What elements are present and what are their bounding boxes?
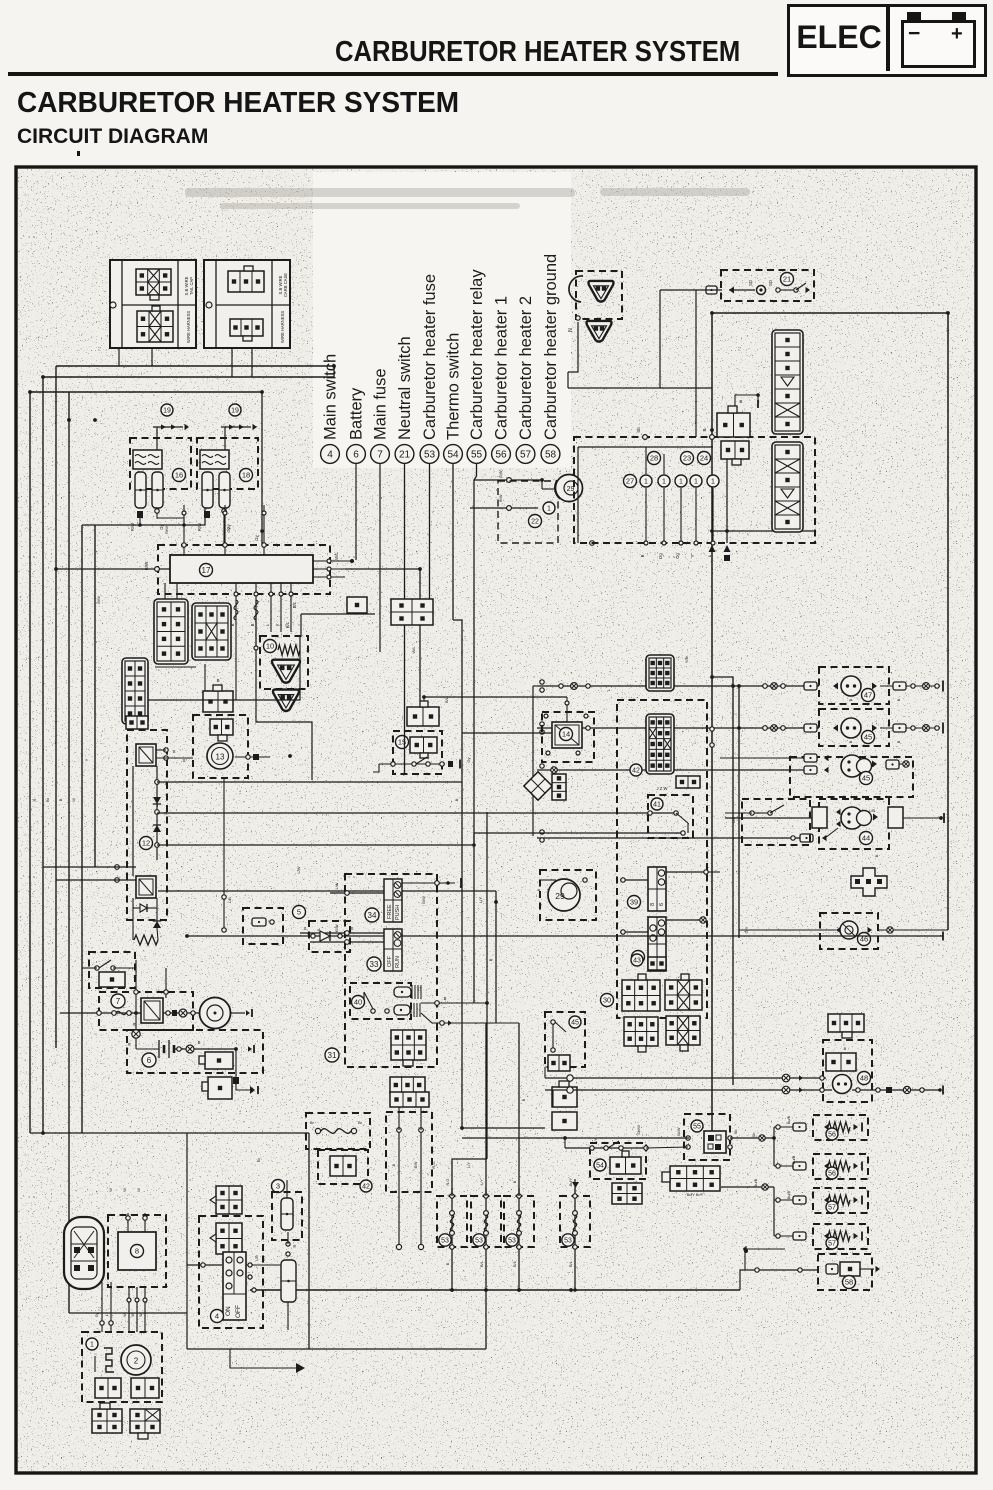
wire row — [725, 817, 815, 819]
pin on v712 — [710, 727, 714, 731]
box B circle — [206, 302, 212, 308]
svg-text:Br: Br — [310, 1120, 315, 1125]
pin — [644, 541, 648, 545]
terminal — [804, 682, 817, 690]
junction dot — [460, 1126, 464, 1130]
grid c5 — [622, 974, 660, 1011]
pin — [559, 726, 563, 730]
pin — [223, 511, 227, 515]
circle 33 — [367, 957, 381, 971]
legend backdrop — [313, 172, 571, 468]
pin — [567, 1087, 573, 1093]
pin — [755, 1268, 759, 1272]
wire — [136, 1048, 159, 1050]
wire — [156, 898, 158, 921]
diode up small — [153, 921, 161, 928]
pin — [450, 1194, 454, 1198]
thermo cells — [610, 1151, 641, 1174]
bus bar dashed box — [158, 545, 330, 594]
wire drop to bullet — [135, 960, 137, 1031]
junction dot — [710, 529, 714, 533]
svg-text:23: 23 — [683, 454, 691, 463]
contact pin — [426, 762, 430, 766]
pin — [540, 838, 544, 842]
wire — [156, 749, 166, 751]
bullet — [551, 767, 557, 773]
junction dot — [540, 478, 544, 482]
pin — [262, 511, 266, 515]
wire bus bottom pin — [235, 583, 237, 632]
ignition inner grid — [410, 737, 437, 758]
junction dot — [450, 1288, 454, 1292]
wire — [541, 480, 543, 489]
svg-text:44: 44 — [862, 834, 870, 843]
wire — [43, 866, 136, 868]
header rule — [8, 72, 778, 76]
svg-text:14: 14 — [562, 730, 570, 739]
circle 1 — [675, 475, 687, 487]
pin — [155, 780, 160, 785]
arrow — [824, 767, 829, 773]
pin on dash — [254, 592, 258, 596]
pin — [327, 559, 331, 563]
lever — [608, 1141, 619, 1148]
circle 55 comp — [691, 1120, 703, 1132]
svg-text:3: 3 — [276, 1182, 280, 1191]
pin — [781, 684, 786, 689]
terminal — [793, 1123, 806, 1131]
junction dot — [234, 1047, 238, 1051]
bar — [861, 1196, 863, 1205]
svg-text:19: 19 — [163, 408, 171, 415]
wire — [568, 322, 578, 372]
junction dot — [710, 428, 714, 432]
svg-text:R/W: R/W — [197, 523, 202, 531]
wire v696 — [695, 290, 697, 437]
wire bend2 — [69, 1312, 187, 1314]
wire — [176, 583, 178, 599]
junction dot — [939, 816, 943, 820]
junction dot — [710, 311, 714, 315]
svg-text:1: 1 — [547, 506, 551, 513]
page running head — [335, 36, 747, 69]
wire — [734, 395, 736, 406]
circle 46 — [858, 933, 871, 946]
wire — [660, 289, 722, 291]
generator 2 — [121, 1345, 151, 1375]
wire — [420, 1107, 422, 1130]
contact pin — [440, 762, 444, 766]
ground connector 3 — [589, 281, 614, 302]
svg-text:B: B — [848, 698, 853, 701]
circle 43 — [631, 954, 643, 966]
svg-text:39: 39 — [630, 898, 638, 907]
pin — [586, 726, 590, 730]
gen grid 3 — [92, 1403, 122, 1433]
junction dot — [185, 934, 189, 938]
heater resistor — [828, 1195, 850, 1205]
wire — [735, 395, 758, 401]
horn 29a — [555, 475, 583, 502]
junction dot — [446, 881, 450, 885]
svg-text:27: 27 — [626, 477, 634, 486]
wire thermo row — [565, 1147, 646, 1149]
svg-text:29: 29 — [555, 891, 565, 901]
svg-text:Main fuse: Main fuse — [372, 368, 390, 440]
circle 28 — [648, 452, 661, 465]
carb heater relay block — [704, 1131, 726, 1153]
circle 57 heater — [826, 1201, 838, 1213]
wire contact row — [379, 763, 445, 765]
wire — [287, 1232, 289, 1244]
svg-text:B: B — [446, 1262, 450, 1265]
fuse capsule 1 — [202, 472, 213, 508]
bus bar 17 — [170, 555, 313, 583]
pin — [222, 509, 226, 513]
pin — [820, 1076, 824, 1080]
heater resistor — [828, 1161, 850, 1171]
svg-text:L/B: L/B — [731, 817, 736, 823]
pin — [371, 1009, 375, 1013]
terminal — [826, 1264, 838, 1274]
circle 17 — [200, 564, 213, 577]
wire long drop W/L — [419, 569, 421, 701]
svg-text:Thermo switch: Thermo switch — [445, 333, 463, 440]
wire bus right 3 — [313, 576, 345, 578]
wire fuse2 feed — [485, 1023, 487, 1196]
junction dot — [494, 900, 498, 904]
pin — [576, 751, 580, 755]
gen grid 2 — [131, 1378, 159, 1398]
svg-text:6: 6 — [659, 903, 665, 906]
main switch dashed box — [127, 730, 167, 920]
meter lamp dashed box — [823, 1040, 872, 1102]
black pin — [724, 555, 730, 561]
wire — [236, 1084, 250, 1090]
wire fuse to bus — [157, 513, 184, 525]
wire pin row — [221, 426, 251, 428]
svg-text:Sb: Sb — [636, 427, 641, 433]
switch lever — [416, 757, 427, 764]
bullet — [771, 725, 778, 732]
wire jog — [373, 764, 379, 772]
pin on dash — [269, 592, 273, 596]
pin — [177, 1047, 181, 1051]
carburetor heater fuse dashed box — [560, 1196, 590, 1247]
svg-text:S: S — [350, 926, 353, 931]
pin — [143, 1298, 147, 1302]
circle 30 — [601, 994, 614, 1007]
svg-text:Y: Y — [690, 554, 695, 557]
svg-text:SD: SD — [748, 280, 753, 286]
wire fuse column — [451, 1188, 453, 1290]
contact capsule a — [394, 985, 421, 999]
ground connector 1 — [272, 660, 300, 683]
pickup coil — [104, 1348, 114, 1372]
bullet — [887, 927, 893, 933]
wire thermo feed — [462, 1127, 545, 1129]
circle 48 — [858, 1072, 871, 1085]
pin — [345, 891, 350, 896]
pin — [450, 1211, 455, 1216]
grid B2 — [202, 1077, 232, 1099]
svg-text:Battery: Battery — [348, 387, 366, 440]
wire — [310, 941, 384, 943]
svg-text:Neutral switch: Neutral switch — [396, 336, 414, 440]
arrow — [854, 1197, 859, 1203]
pin — [546, 751, 550, 755]
svg-text:SD: SD — [768, 280, 773, 286]
pin — [112, 1011, 117, 1016]
pin — [95, 966, 99, 970]
svg-text:42: 42 — [362, 1184, 370, 1191]
pin — [517, 1211, 522, 1216]
wire — [729, 289, 755, 291]
handle conn grid 2 — [390, 1077, 425, 1098]
pin — [155, 843, 160, 848]
wire — [56, 879, 136, 881]
wire relay low out — [721, 1186, 774, 1188]
junction dot — [93, 418, 97, 422]
pin — [345, 940, 350, 945]
bullet — [179, 1009, 187, 1017]
bar end — [942, 932, 944, 941]
bullet — [571, 683, 578, 690]
lever — [770, 805, 784, 813]
wire run 833 — [474, 833, 683, 845]
double bulb 2 — [841, 807, 872, 829]
wire long h2 — [158, 890, 496, 892]
svg-text:54: 54 — [596, 1163, 604, 1170]
circle 5 — [293, 906, 306, 919]
svg-text:53: 53 — [508, 1238, 516, 1245]
wire drop — [156, 427, 158, 452]
thermo lower connector — [612, 1183, 642, 1204]
wire drop 2 — [165, 968, 167, 998]
pin — [126, 1216, 130, 1220]
wire fuse link — [82, 508, 205, 525]
wire legend 7 drop — [379, 463, 381, 652]
bulb lamp — [841, 718, 861, 738]
arrow — [872, 725, 877, 732]
black pin — [253, 754, 259, 760]
svg-text:Carburetor heater 2: Carburetor heater 2 — [517, 296, 535, 440]
svg-text:B: B — [444, 996, 447, 1001]
wire v727 — [726, 455, 728, 543]
svg-text:L/Y: L/Y — [478, 897, 483, 903]
pin — [679, 541, 683, 545]
arrow — [824, 1233, 829, 1239]
pin — [920, 1088, 924, 1092]
wire — [235, 632, 237, 700]
junction dot — [41, 1131, 45, 1135]
svg-text:B: B — [58, 798, 63, 801]
switch lever — [796, 283, 806, 290]
wire bend — [256, 600, 312, 780]
neutral switch dashed box — [721, 270, 814, 301]
subsection title — [17, 125, 208, 149]
circle 1 — [640, 475, 652, 487]
wire — [132, 898, 134, 940]
pin — [590, 541, 595, 546]
pin — [484, 1245, 488, 1249]
svg-text:54: 54 — [447, 450, 459, 461]
legend circle 54 — [444, 445, 463, 464]
sidestand dashed box — [386, 1112, 432, 1192]
wire bus top 1 — [56, 365, 334, 367]
svg-text:Sb: Sb — [751, 1132, 756, 1138]
svg-text:19: 19 — [231, 408, 239, 415]
junction dot — [350, 559, 354, 563]
wire long h3 — [187, 935, 943, 937]
svg-text:6: 6 — [353, 450, 359, 461]
resistor coil — [278, 645, 300, 655]
pilot dashed box — [545, 1012, 585, 1067]
circle 56 heater — [826, 1167, 838, 1179]
svg-text:B: B — [844, 1046, 847, 1051]
wire legend 6 drop — [355, 463, 357, 560]
wire bus bottom pin — [290, 583, 292, 632]
pin — [109, 1321, 113, 1325]
svg-text:Bu/B: Bu/B — [787, 1190, 791, 1199]
arrow — [836, 809, 841, 815]
svg-text:53: 53 — [424, 450, 436, 461]
pin — [484, 1211, 489, 1216]
arrow mark — [171, 424, 176, 429]
wire — [774, 1235, 793, 1237]
wire pin row — [153, 426, 183, 428]
fuse relay block — [133, 450, 162, 469]
wire v712 — [711, 313, 713, 1131]
svg-text:B/W: B/W — [421, 896, 426, 904]
pin — [876, 1088, 880, 1092]
oval connector — [64, 1217, 104, 1289]
wire meter row a — [545, 1077, 826, 1079]
svg-text:1: 1 — [679, 479, 683, 486]
wire — [402, 882, 455, 884]
svg-text:31: 31 — [328, 1051, 337, 1060]
wire row — [537, 769, 807, 771]
svg-text:Main switch: Main switch — [322, 354, 340, 440]
pin — [573, 1231, 578, 1236]
pin on dash — [134, 990, 138, 994]
svg-text:ON: ON — [225, 1306, 232, 1316]
wire — [230, 1349, 296, 1368]
arrow — [873, 814, 878, 821]
bullet — [132, 1030, 140, 1038]
heater resistor — [828, 1231, 850, 1241]
pin — [583, 878, 587, 882]
bulb lamp — [841, 676, 861, 696]
circle 19 — [229, 404, 241, 416]
svg-text:L/B: L/B — [228, 897, 232, 903]
black pin — [886, 1087, 892, 1093]
ms grid top — [216, 1186, 242, 1214]
bar — [861, 1232, 863, 1241]
svg-text:Sb/W: Sb/W — [677, 1127, 681, 1136]
svg-text:N: N — [568, 328, 574, 332]
fuse squiggle — [517, 1215, 520, 1231]
svg-text:57: 57 — [828, 1205, 836, 1212]
arrow — [868, 927, 873, 933]
svg-text:B: B — [536, 888, 541, 891]
junction dot — [138, 523, 142, 527]
svg-text:57: 57 — [520, 450, 532, 461]
bullet — [923, 683, 930, 690]
wire bus top 3 — [30, 391, 262, 393]
diode main — [320, 931, 330, 941]
svg-text:WIRE HARNESS: WIRE HARNESS — [186, 311, 191, 344]
svg-text:Y: Y — [84, 758, 89, 761]
svg-text:58: 58 — [845, 1278, 853, 1287]
circle 39 — [628, 896, 641, 909]
svg-text:FREE: FREE — [387, 904, 393, 919]
socket big — [812, 807, 827, 828]
wire — [255, 632, 257, 648]
lever — [555, 1022, 566, 1032]
arrow — [854, 1233, 859, 1239]
wire big bend — [309, 1133, 486, 1349]
arrow — [824, 1163, 829, 1169]
wire — [223, 513, 225, 545]
wire bus top pin — [224, 505, 226, 555]
pin — [286, 1242, 290, 1246]
svg-text:1: 1 — [662, 479, 666, 486]
arrow — [876, 1266, 881, 1272]
arrow — [872, 761, 877, 768]
big dashed box center — [617, 700, 707, 1018]
junction dot — [563, 1136, 567, 1140]
arrow — [833, 725, 838, 732]
terminal — [793, 1196, 806, 1204]
svg-text:L/B: L/B — [869, 808, 875, 813]
pin on edge — [643, 435, 648, 440]
svg-text:24: 24 — [700, 454, 708, 463]
pin — [164, 748, 168, 752]
headlight dashed box — [819, 799, 889, 849]
grid k1 — [99, 972, 125, 987]
svg-text:16: 16 — [175, 471, 183, 480]
contact pin — [391, 762, 395, 766]
pin — [286, 1252, 290, 1256]
svg-text:L/Y: L/Y — [480, 1179, 484, 1185]
arrow — [246, 1010, 250, 1016]
pin — [385, 1009, 389, 1013]
circle 53 fuse — [506, 1234, 518, 1246]
carb heater relay dashed box — [684, 1114, 730, 1160]
wire h388 — [568, 387, 712, 389]
wire drop — [695, 488, 697, 543]
pin — [798, 1268, 802, 1272]
svg-text:33: 33 — [370, 960, 379, 969]
arrow — [253, 424, 258, 430]
wire — [421, 1002, 487, 1004]
gen grid 1 — [95, 1378, 121, 1398]
svg-text:B/W: B/W — [499, 494, 503, 502]
wire drop — [224, 427, 226, 452]
circle 12 — [140, 837, 153, 850]
pin — [686, 1136, 690, 1140]
svg-text:B: B — [874, 854, 879, 857]
svg-text:1: 1 — [711, 479, 715, 486]
wire — [287, 1302, 289, 1330]
wire v739 — [738, 686, 740, 938]
wire row — [537, 727, 819, 729]
pin — [484, 1194, 488, 1198]
ms grid in — [216, 1223, 242, 1254]
svg-text:Bu/B: Bu/B — [791, 1155, 796, 1164]
gen grid 4 — [130, 1409, 160, 1439]
